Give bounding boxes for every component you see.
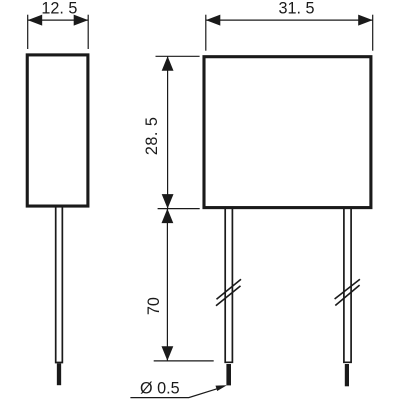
lead diameter leader line [130,389,217,398]
dimension 70 arrowhead bottom [162,346,174,361]
front-view left lead tip stub [226,364,231,385]
dimension 70 extension line bottom [154,360,214,362]
dimension 28.5 extension line top [156,55,200,57]
dimension 12.5 extension line left [27,15,29,49]
dimension 31.5 arrowhead right [358,15,373,26]
side-view body outline [27,55,88,206]
dimension 12.5 arrowhead left [28,15,43,26]
dimension 28.5 extension line bottom [158,208,200,210]
dimension 28.5 line [167,56,169,208]
dimension 12.5 extension line right [87,15,89,49]
dimension 31.5 extension line left [205,15,207,51]
dimension 31.5 line [206,19,373,21]
dimension 70 line [166,209,168,361]
svg-text:Ø 0.5: Ø 0.5 [140,380,180,398]
dimension 31.5 extension line right [372,15,374,51]
front-view body outline [204,57,371,208]
dimension 70 arrowhead top [162,209,174,224]
dimension 31.5 arrowhead left [206,15,221,26]
break mark on right lead [335,279,360,305]
front-view left lead wire [225,208,232,363]
dimension 28.5 arrowhead top [162,56,174,70]
front-view right lead wire [344,208,351,363]
side-view lead tip stub [57,364,61,386]
svg-text:31. 5: 31. 5 [278,0,314,18]
svg-text:70: 70 [145,297,163,315]
svg-text:12. 5: 12. 5 [41,0,77,18]
svg-text:28. 5: 28. 5 [143,117,161,156]
dimension 12.5 arrowhead right [74,15,89,26]
side-view lead wire [56,206,63,363]
front-view right lead tip stub [345,364,349,386]
dimension 12.5 line [28,19,88,21]
break mark on left lead [216,279,241,306]
dimension 28.5 arrowhead bottom [162,194,174,209]
lead diameter leader arrowhead [216,385,227,391]
